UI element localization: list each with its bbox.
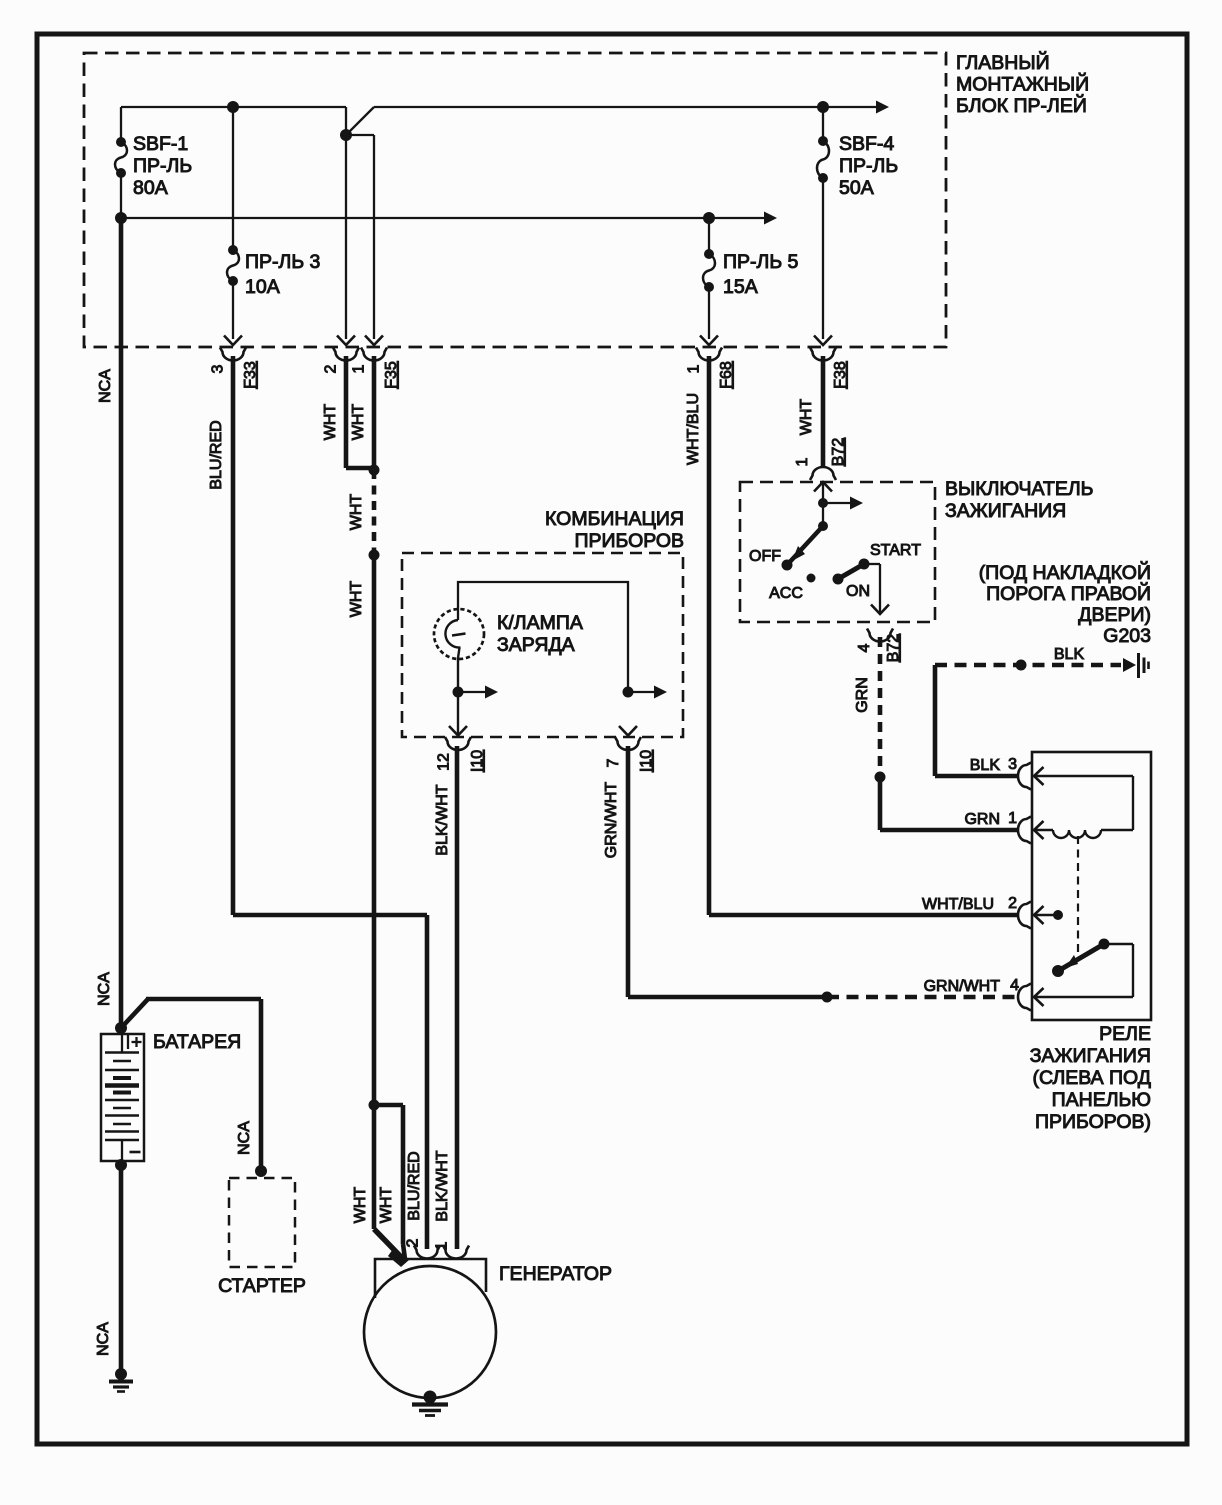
svg-text:WHT/BLU: WHT/BLU (685, 393, 702, 465)
connector F38 (814, 336, 832, 346)
svg-text:ПР-ЛЬ: ПР-ЛЬ (133, 155, 192, 177)
svg-text:4: 4 (856, 643, 873, 652)
svg-text:WHT: WHT (348, 494, 365, 531)
wire WHT F38 to ignition switch (821, 356, 826, 467)
node lamp out (453, 687, 464, 698)
switch arm OFF (787, 526, 823, 565)
arrow right branch (628, 691, 656, 693)
svg-text:БАТАРЕЯ: БАТАРЕЯ (153, 1031, 241, 1053)
svg-text:ГЕНЕРАТОР: ГЕНЕРАТОР (499, 1263, 612, 1285)
svg-text:ПРИБОРОВ): ПРИБОРОВ) (1035, 1111, 1151, 1133)
wire F35 pin 1 feeder (346, 134, 374, 136)
svg-text:(СЛЕВА ПОД: (СЛЕВА ПОД (1033, 1067, 1151, 1089)
svg-text:WHT: WHT (348, 581, 365, 618)
svg-text:B72: B72 (885, 634, 902, 663)
ignition relay box (1032, 752, 1151, 1020)
wire BLK/WHT to generator pin 1 (455, 746, 460, 1249)
fuse ПР-ЛЬ 3 10A (232, 107, 234, 250)
wire BLK dashed to G203 (935, 663, 1121, 668)
svg-text:F68: F68 (718, 361, 735, 389)
svg-text:ПР-ЛЬ 5: ПР-ЛЬ 5 (723, 251, 799, 273)
connector F33 pin 3 (224, 336, 242, 346)
svg-text:ЗАРЯДА: ЗАРЯДА (497, 634, 575, 656)
wire lamp to I10-12 (457, 658, 459, 734)
node GRN splice (875, 772, 886, 783)
svg-text:GRN: GRN (964, 811, 1000, 828)
svg-text:(ПОД НАКЛАДКОЙ: (ПОД НАКЛАДКОЙ (979, 560, 1151, 584)
svg-text:7: 7 (605, 758, 622, 767)
relay armature dashed link (1077, 836, 1079, 956)
relay switch arm (1058, 944, 1104, 971)
svg-text:ДВЕРИ): ДВЕРИ) (1078, 604, 1151, 626)
node ign-1 (818, 498, 828, 508)
arrow bus1 right (876, 101, 889, 114)
svg-text:80А: 80А (133, 177, 168, 199)
svg-text:WHT: WHT (352, 1187, 369, 1224)
svg-text:BLK: BLK (970, 757, 1001, 774)
wire BLU/RED from F33 to generator pin 2 (231, 356, 236, 915)
svg-text:START: START (870, 542, 921, 559)
node relay common (1053, 910, 1063, 920)
svg-text:BLK/WHT: BLK/WHT (434, 1150, 451, 1221)
svg-text:NCA: NCA (96, 972, 113, 1006)
node starter terminal (255, 1165, 267, 1177)
wire WHT/BLU F68 to relay pin 2 (707, 356, 712, 915)
node right branch (623, 687, 634, 698)
svg-text:СТАРТЕР: СТАРТЕР (218, 1275, 306, 1297)
generator G1 circle (364, 1266, 496, 1398)
svg-text:BLK/WHT: BLK/WHT (434, 784, 451, 855)
svg-text:GRN: GRN (854, 677, 871, 713)
combination instruments dashed box (402, 553, 683, 737)
svg-text:B72: B72 (830, 438, 847, 467)
arrow bus2 right (764, 212, 777, 225)
svg-text:OFF: OFF (749, 548, 781, 565)
node battery positive junction (115, 1022, 127, 1034)
wire NCA battery feed (119, 218, 124, 1026)
svg-text:МОНТАЖНЫЙ: МОНТАЖНЫЙ (956, 72, 1089, 96)
svg-text:F33: F33 (242, 361, 259, 389)
node WHT join (369, 465, 380, 476)
svg-text:2: 2 (1008, 895, 1017, 912)
wire F35 pin 2 feeder (345, 135, 347, 339)
svg-text:WHT: WHT (378, 1187, 395, 1224)
connector B72 pin 1 (810, 467, 836, 480)
svg-text:WHT: WHT (350, 404, 367, 441)
connector relay pin 1 (1018, 817, 1031, 844)
svg-text:GRN/WHT: GRN/WHT (924, 978, 1001, 995)
wire WHT to generator (372, 555, 377, 1105)
wire GRN/WHT to relay pin 4 (626, 746, 631, 997)
ignition switch dashed box (740, 482, 935, 622)
fuse ПР-ЛЬ 5 15A (708, 218, 710, 254)
svg-text:SBF-1: SBF-1 (133, 133, 188, 155)
svg-text:WHT: WHT (322, 404, 339, 441)
svg-text:КОМБИНАЦИЯ: КОМБИНАЦИЯ (545, 508, 684, 530)
svg-text:1: 1 (434, 1241, 451, 1250)
wire GRN to relay pin 1 (878, 777, 883, 830)
svg-text:ПР-ЛЬ 3: ПР-ЛЬ 3 (245, 251, 320, 273)
arrow lamp branch (458, 691, 487, 693)
connector I10 pin 7 (619, 726, 637, 736)
svg-text:БЛОК ПР-ЛЕЙ: БЛОК ПР-ЛЕЙ (956, 93, 1087, 117)
starter dashed box (229, 1178, 295, 1267)
svg-text:WHT: WHT (798, 399, 815, 436)
wire lamp top link (458, 582, 628, 692)
svg-text:12: 12 (436, 753, 453, 771)
node bus1-J1 (227, 101, 239, 113)
connector F35 pin 1 (365, 336, 383, 346)
ground battery (115, 1368, 127, 1380)
terminal OFF (782, 560, 793, 571)
svg-text:WHT/BLU: WHT/BLU (922, 896, 994, 913)
node bus2-J2 (703, 212, 715, 224)
wire WHT F35 pin 1 (372, 356, 377, 470)
terminal ACC (807, 574, 816, 583)
connector generator pin 2 (414, 1246, 440, 1259)
svg-text:1: 1 (351, 364, 368, 373)
relay coil circuit (1034, 775, 1133, 777)
svg-text:F35: F35 (383, 361, 400, 389)
connector relay pin 4 (1018, 984, 1031, 1011)
switch arm ON (838, 564, 864, 579)
wire NCA battery to ground (119, 1165, 124, 1371)
wire WHT diagonal into generator (374, 1229, 405, 1261)
svg-text:SBF-4: SBF-4 (839, 133, 894, 155)
node bus1-J3 (817, 101, 829, 113)
fuse SBF-4 50A (822, 107, 824, 141)
svg-text:ACC: ACC (769, 585, 803, 602)
svg-text:ГЛАВНЫЙ: ГЛАВНЫЙ (956, 50, 1050, 74)
connector relay pin 2 (1018, 902, 1031, 929)
svg-text:ПОРОГА ПРАВОЙ: ПОРОГА ПРАВОЙ (986, 581, 1151, 605)
node GRN/WHT splice (822, 992, 833, 1003)
svg-text:К/ЛАМПА: К/ЛАМПА (497, 612, 583, 634)
connector F68 pin 1 (700, 336, 718, 346)
svg-text:ВЫКЛЮЧАТЕЛЬ: ВЫКЛЮЧАТЕЛЬ (945, 478, 1093, 500)
svg-text:1: 1 (686, 364, 703, 373)
node bus2-J1 (115, 212, 127, 224)
connector generator pin 1 (443, 1246, 469, 1259)
ignition switch internals (814, 482, 832, 492)
node WHT splice (369, 550, 380, 561)
svg-text:NCA: NCA (95, 1322, 112, 1356)
connector F35 pin 2 (337, 336, 355, 346)
main fuse/relay block dashed box (84, 53, 946, 347)
svg-text:ПРИБОРОВ: ПРИБОРОВ (574, 530, 684, 552)
svg-text:50А: 50А (839, 177, 874, 199)
ground G203 (1123, 658, 1136, 672)
svg-text:ПР-ЛЬ: ПР-ЛЬ (839, 155, 898, 177)
generator box (375, 1259, 486, 1298)
connector relay pin 3 (1018, 763, 1031, 790)
node bus1-J2 (340, 129, 352, 141)
charge lamp (434, 609, 484, 659)
svg-text:ON: ON (846, 583, 870, 600)
wire WHT dashed splice (372, 470, 377, 555)
svg-text:I10: I10 (469, 750, 486, 772)
node ign-2 (818, 521, 828, 531)
wire bus1 top (121, 106, 346, 108)
svg-text:1: 1 (1008, 810, 1017, 827)
svg-text:BLK: BLK (1054, 646, 1085, 663)
svg-text:NCA: NCA (97, 369, 114, 403)
svg-text:РЕЛЕ: РЕЛЕ (1099, 1023, 1151, 1045)
relay common pin 2 lead (1034, 914, 1056, 916)
connector B72 pin 4 (867, 629, 893, 642)
wire bus2 (121, 217, 709, 219)
node BLK splice (1016, 660, 1027, 671)
svg-text:3: 3 (210, 364, 227, 373)
fuse SBF-1 80A (120, 107, 122, 142)
ground generator (424, 1391, 437, 1404)
svg-text:ЗАЖИГАНИЯ: ЗАЖИГАНИЯ (1030, 1045, 1151, 1067)
svg-text:3: 3 (1008, 756, 1017, 773)
svg-text:I10: I10 (638, 750, 655, 772)
svg-text:10А: 10А (245, 276, 280, 298)
svg-text:2: 2 (323, 364, 340, 373)
svg-text:BLU/RED: BLU/RED (208, 420, 225, 489)
svg-text:ПАНЕЛЬЮ: ПАНЕЛЬЮ (1052, 1089, 1151, 1111)
svg-text:BLU/RED: BLU/RED (406, 1151, 423, 1220)
connector I10 pin 12 (449, 726, 467, 736)
wire GRN dashed (878, 637, 883, 777)
node battery negative (115, 1159, 127, 1171)
wire NCA to starter (121, 999, 148, 1028)
svg-text:ЗАЖИГАНИЯ: ЗАЖИГАНИЯ (945, 500, 1066, 522)
wire WHT F35 pin 2 (344, 356, 349, 468)
node WHT branch to generator (369, 1100, 380, 1111)
svg-text:15А: 15А (723, 276, 758, 298)
relay output circuit (1104, 943, 1133, 945)
svg-text:G203: G203 (1103, 625, 1151, 647)
battery B1 (101, 1034, 144, 1161)
svg-text:GRN/WHT: GRN/WHT (603, 782, 620, 859)
svg-text:NCA: NCA (236, 1121, 253, 1155)
svg-text:F38: F38 (832, 361, 849, 389)
wire BLK relay pin 3 to ground (935, 774, 1018, 779)
svg-text:1: 1 (794, 457, 811, 466)
